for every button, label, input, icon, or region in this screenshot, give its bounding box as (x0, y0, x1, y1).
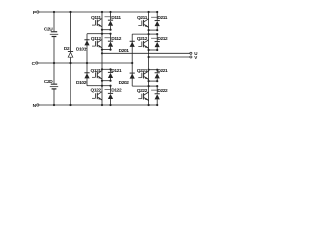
node bus-P junction Q111 (101, 11, 103, 13)
wire C neutral rail (38, 62, 132, 64)
node tie-dcol D112 top (109, 33, 111, 35)
svg-text:Q112: Q112 (91, 36, 102, 42)
wire Q11x bus (101, 12, 103, 105)
node output tap V (148, 56, 150, 58)
wire D222 label tick (151, 89, 157, 91)
wire tie bottom of Q121 (102, 80, 111, 82)
diode D212 (155, 40, 160, 43)
wire clamp column D201/D202 (131, 34, 133, 86)
node tie-bus Q221 top (148, 69, 150, 71)
node N-dcol junction D222 (156, 104, 158, 106)
wire D2 branch lower (70, 63, 72, 105)
svg-text:Q211: Q211 (137, 15, 148, 21)
wire tie top of Q222 (149, 85, 158, 87)
wire D111 cathode lead (110, 12, 112, 20)
diode D121 (108, 71, 113, 74)
svg-text:D212: D212 (157, 36, 168, 42)
wire D2 branch to neutral (70, 58, 72, 63)
node N-cap junction (53, 104, 55, 106)
wire D211 cathode lead (156, 12, 158, 20)
svg-text:D121: D121 (111, 68, 122, 74)
svg-text:Q122: Q122 (90, 88, 101, 94)
svg-text:Q121: Q121 (90, 68, 101, 74)
node tie-dcol D112 bottom (109, 49, 111, 51)
terminal V (190, 56, 192, 58)
svg-text:Q212: Q212 (137, 36, 148, 42)
wire D221 anode lead (156, 78, 158, 81)
terminal N (37, 104, 39, 106)
wire D112 label tick (105, 37, 111, 39)
terminal P (37, 11, 39, 13)
node P-dcol junction D211 (156, 11, 158, 13)
node tie-bus Q122 top (101, 85, 103, 87)
node tie-dcol D221 top (156, 69, 158, 71)
node tie-bus Q211 bottom (148, 29, 150, 31)
capacitor C2D (51, 84, 57, 85)
wire P rail (39, 11, 157, 13)
svg-text:D101: D101 (76, 46, 87, 52)
wire D222 anode lead (156, 99, 158, 105)
wire D211 label tick (151, 16, 157, 18)
wire cap branch lower (53, 90, 55, 106)
wire D111 label tick (105, 16, 111, 18)
node clamp-neutral junction (131, 62, 133, 64)
node tie-bus Q121 top (101, 68, 103, 70)
svg-text:D122: D122 (111, 88, 122, 94)
wire D122 label tick (105, 89, 111, 91)
wire Q21x bus (148, 12, 150, 105)
node tie-dcol D211 bottom (156, 29, 158, 31)
diode D122 (108, 92, 113, 95)
diode D201 (130, 40, 135, 43)
svg-text:Q222: Q222 (137, 88, 148, 94)
svg-text:D211: D211 (157, 15, 167, 21)
wire D111 anode lead (110, 26, 112, 30)
diode D222 (155, 92, 160, 95)
wire tie bottom of Q212 (149, 49, 158, 51)
diode D202 (130, 72, 135, 75)
svg-text:N: N (33, 103, 37, 109)
wire output U (102, 52, 190, 54)
wire D221 cathode lead (156, 70, 158, 73)
wire D121 cathode lead (110, 69, 112, 72)
svg-text:D2: D2 (64, 46, 70, 52)
transistor Q121 (97, 72, 98, 78)
svg-text:P: P (33, 10, 37, 16)
transistor Q111 (97, 20, 98, 26)
svg-text:D102: D102 (76, 80, 87, 86)
wire tie top of Q121 (102, 68, 111, 70)
svg-text:D201: D201 (119, 48, 130, 54)
wire tie bottom of Q112 (102, 49, 111, 51)
wire D2 branch upper (70, 12, 72, 51)
node bus-N junction Q222 (148, 104, 150, 106)
svg-text:D112: D112 (111, 36, 121, 42)
node tie-bus Q222 top (148, 85, 150, 87)
node tie-dcol D222 top (156, 85, 158, 87)
diode D102 (84, 71, 89, 74)
wire clamp column D101/D102 (86, 34, 88, 86)
node tie-dcol D212 bottom (156, 49, 158, 51)
wire tie top of Q122 (102, 85, 111, 87)
node tie-bus Q221 bottom (148, 80, 150, 82)
wire tie top of Q212 (149, 33, 158, 35)
node C-D2 junction (69, 62, 71, 64)
terminal U (190, 52, 192, 54)
svg-text:D221: D221 (157, 68, 168, 74)
wire cap branch middle (53, 37, 55, 84)
svg-text:D222: D222 (157, 88, 168, 94)
transistor Q222 (143, 93, 144, 99)
node tie-dcol D122 top (109, 85, 111, 87)
svg-text:Q111: Q111 (91, 15, 101, 21)
wire output V (149, 56, 190, 58)
node tie-dcol D111 bottom (109, 29, 111, 31)
node tie-dcol D121 top (109, 68, 111, 70)
node tie-dcol D121 bottom (109, 80, 111, 82)
wire D212 anode lead (156, 47, 158, 50)
wire N rail (39, 104, 157, 106)
wire tie bottom of Q211 (149, 29, 158, 31)
wire clamp lower connect (87, 85, 102, 87)
node tie-bus Q111 bottom (101, 29, 103, 31)
wire D222 cathode lead (156, 86, 158, 93)
wire D212 label tick (151, 37, 157, 39)
diode D101 (84, 38, 89, 41)
svg-text:V: V (194, 55, 197, 60)
svg-text:D111: D111 (111, 15, 121, 21)
transistor Q122 (97, 93, 98, 99)
wire tie bottom of Q111 (102, 29, 111, 31)
diode D111 (108, 19, 113, 22)
svg-text:C: C (32, 61, 36, 67)
node clamp-neutral junction (86, 62, 88, 64)
transistor Q112 (97, 41, 98, 47)
diode D112 (108, 40, 113, 43)
node tie-bus Q212 top (148, 33, 150, 35)
transistor Q211 (143, 20, 144, 26)
wire clamp lower connect (132, 85, 148, 87)
svg-text:Q221: Q221 (137, 68, 148, 74)
wire cap branch upper (53, 12, 55, 31)
wire D211 anode lead (156, 26, 158, 30)
svg-text:C2D: C2D (44, 79, 53, 85)
node N-dcol junction D122 (109, 104, 111, 106)
node bus-P junction Q211 (148, 11, 150, 13)
diode D2 (68, 50, 73, 53)
wire tie top of Q112 (102, 33, 111, 35)
svg-text:C2U: C2U (44, 27, 53, 33)
wire clamp upper connect (87, 33, 102, 35)
node P-D2 junction (69, 11, 71, 13)
wire D122 cathode lead (110, 86, 112, 93)
node N-D2 junction (69, 104, 71, 106)
node P-dcol junction D111 (109, 11, 111, 13)
wire D212 cathode lead (156, 34, 158, 41)
transistor Q212 (143, 41, 144, 47)
wire tie top of Q221 (149, 69, 158, 71)
node tie-dcol D212 top (156, 33, 158, 35)
wire D112 cathode lead (110, 34, 112, 41)
diode D221 (155, 71, 160, 74)
wire clamp upper connect (132, 33, 148, 35)
node tie-bus Q112 bottom (101, 49, 103, 51)
wire D122 anode lead (110, 99, 112, 105)
wire tie bottom of Q221 (149, 80, 158, 82)
node bus-N junction Q122 (101, 104, 103, 106)
svg-text:D202: D202 (119, 80, 130, 86)
wire D112 anode lead (110, 47, 112, 50)
transistor Q221 (143, 72, 144, 78)
node tie-bus Q212 bottom (148, 49, 150, 51)
node output tap U (101, 52, 103, 54)
node tie-bus Q121 bottom (101, 80, 103, 82)
terminal C (36, 62, 38, 64)
node C-cap junction (53, 62, 55, 64)
diode D211 (155, 19, 160, 22)
node tie-dcol D221 bottom (156, 80, 158, 82)
capacitor C2U (51, 31, 57, 32)
wire D121 anode lead (110, 78, 112, 81)
node tie-bus Q112 top (101, 33, 103, 35)
node P-cap junction (53, 11, 55, 13)
